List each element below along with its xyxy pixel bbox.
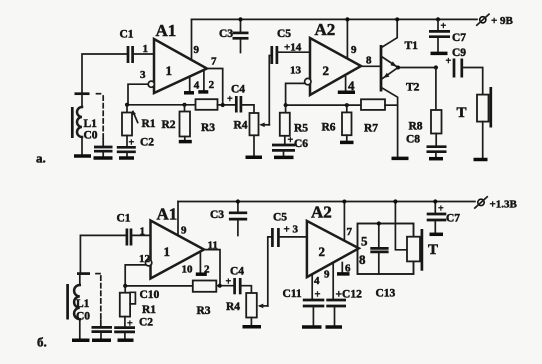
capacitor C2 electrolytic <box>117 136 136 157</box>
svg-text:C13: C13 <box>376 288 396 300</box>
svg-text:R3: R3 <box>197 305 211 317</box>
wire input from tank to C1 <box>82 54 128 94</box>
svg-text:C7: C7 <box>452 32 466 44</box>
capacitor C13 <box>370 224 388 275</box>
svg-text:C3: C3 <box>219 28 233 40</box>
power rail +1.3V <box>178 201 475 203</box>
junction R6 <box>345 103 349 107</box>
junction rail C7 (b) <box>433 199 437 203</box>
svg-text:+1.3В: +1.3В <box>490 199 518 211</box>
ground tank a <box>74 154 91 158</box>
svg-text:C5: C5 <box>277 28 291 40</box>
resistor R7 <box>361 99 398 110</box>
pin 10 stub and ground <box>196 252 207 275</box>
svg-text:C1: C1 <box>120 29 134 41</box>
capacitor C10 bracket <box>130 292 135 304</box>
ground C0 (b) <box>92 338 111 342</box>
ground C11 <box>302 325 322 329</box>
capacitor C8 <box>427 147 447 157</box>
dashed trimmer line C0 (b) <box>96 274 101 327</box>
svg-text:+: + <box>446 56 452 67</box>
svg-text:T: T <box>428 242 438 258</box>
svg-text:6: 6 <box>345 263 351 275</box>
junction rail C3 <box>238 17 242 21</box>
transistor T2 <box>382 68 398 156</box>
resistor R4 potentiometer (b) <box>246 293 257 325</box>
svg-text:9: 9 <box>351 44 357 56</box>
svg-text:T1: T1 <box>405 40 419 52</box>
power terminal +9V <box>477 14 514 27</box>
svg-text:9: 9 <box>194 44 200 56</box>
capacitor C7 electrolytic <box>429 19 450 51</box>
svg-text:T: T <box>457 105 467 121</box>
ground R4 <box>246 155 263 159</box>
svg-text:4: 4 <box>348 78 355 93</box>
junction pin7/R3 <box>221 103 225 107</box>
wire input tank to C1 (b) <box>80 235 127 272</box>
pin 4 riser to C11 <box>311 274 313 298</box>
resistor R1 (b) <box>120 286 130 317</box>
telephone T (b) <box>407 229 422 271</box>
svg-text:R8: R8 <box>409 121 423 133</box>
svg-text:+14: +14 <box>284 42 302 54</box>
svg-text:R5: R5 <box>294 123 308 135</box>
svg-text:C7: C7 <box>446 213 460 225</box>
capacitor C9 <box>446 56 483 95</box>
svg-text:2: 2 <box>323 63 330 78</box>
pin 9 riser A1 (b) <box>177 202 179 236</box>
pin 3 input circle <box>148 81 154 87</box>
resistor R8 <box>431 68 442 146</box>
capacitor C0 (b) <box>92 327 113 338</box>
svg-text:C0: C0 <box>84 130 98 142</box>
ground T <box>474 158 488 162</box>
op-amp A1 (b) <box>151 221 205 279</box>
ground tank b <box>72 338 90 342</box>
capacitor C1 <box>128 46 154 63</box>
svg-text:C9: C9 <box>452 47 466 59</box>
svg-text:C1: C1 <box>117 213 131 225</box>
capacitor C6 electrolytic <box>272 135 295 156</box>
svg-text:+ 3: + 3 <box>284 224 299 236</box>
pin 9 riser A2 <box>346 19 348 58</box>
resistor R4 potentiometer <box>250 113 259 155</box>
capacitor C3 <box>233 19 249 52</box>
wire pin12 to R1 node (b) <box>125 265 145 286</box>
svg-text:L1: L1 <box>84 118 98 130</box>
capacitor C2 electrolytic (b) <box>114 317 135 339</box>
capacitor C5 <box>272 46 310 64</box>
svg-text:2: 2 <box>209 79 215 91</box>
wire wiper to C5 (b) <box>268 237 273 306</box>
capacitor C7 electrolytic (b) <box>427 202 447 233</box>
svg-text:8: 8 <box>359 252 366 267</box>
svg-text:C0: C0 <box>76 311 90 323</box>
ground C7 (b) <box>430 233 444 237</box>
junction R2 top <box>183 103 187 107</box>
svg-text:C8: C8 <box>406 134 420 146</box>
junction R1 top <box>125 103 129 107</box>
svg-text:L1: L1 <box>76 298 90 310</box>
svg-text:C10: C10 <box>140 289 160 301</box>
svg-text:R4: R4 <box>226 301 240 313</box>
svg-text:11: 11 <box>208 240 218 252</box>
svg-text:R2: R2 <box>162 119 176 131</box>
svg-text:9: 9 <box>324 269 330 281</box>
pin 7 output wire <box>207 69 223 106</box>
junction R8/C9 <box>434 65 438 69</box>
svg-text:а.: а. <box>36 151 46 166</box>
svg-text:9: 9 <box>181 225 187 237</box>
svg-text:1: 1 <box>166 63 173 78</box>
svg-text:5: 5 <box>361 234 368 249</box>
tank top bar <box>75 92 90 95</box>
svg-text:R3: R3 <box>201 122 215 134</box>
dashed trimmer line C0 <box>97 94 104 146</box>
inductor L1 (b) <box>68 274 80 339</box>
ground C12 <box>326 325 343 329</box>
svg-text:C2: C2 <box>139 317 153 329</box>
svg-text:+: + <box>129 138 135 149</box>
svg-text:2: 2 <box>319 244 326 259</box>
svg-text:13: 13 <box>290 65 302 77</box>
power terminal +1.3V <box>475 197 518 211</box>
capacitor C12 electrolytic <box>326 300 346 325</box>
wire wiper to C5 <box>269 56 272 125</box>
svg-text:C4: C4 <box>231 84 245 96</box>
svg-text:+: + <box>127 319 133 330</box>
capacitor C11 electrolytic <box>303 290 325 325</box>
svg-text:2: 2 <box>204 264 210 276</box>
svg-text:C3: C3 <box>210 209 224 221</box>
svg-text:+: + <box>226 277 232 288</box>
junction rail pin9 <box>345 17 349 21</box>
junction emitters <box>396 66 400 70</box>
svg-text:R4: R4 <box>234 120 248 132</box>
svg-text:A2: A2 <box>315 20 336 39</box>
svg-text:+: + <box>315 290 321 301</box>
pin 6 stub and ground <box>337 263 350 274</box>
junction pin11/R3 (b) <box>218 284 222 288</box>
wire output node <box>397 67 436 69</box>
resistor R6 <box>342 105 352 141</box>
telephone T <box>477 87 491 158</box>
pin 11 output wire <box>204 250 220 286</box>
svg-text:C11: C11 <box>283 288 302 300</box>
svg-text:7: 7 <box>347 226 353 238</box>
capacitor C0 <box>94 147 113 156</box>
svg-text:A1: A1 <box>156 21 177 40</box>
inductor L1 <box>72 94 82 155</box>
svg-text:+: + <box>227 94 233 105</box>
pin 12 circle <box>145 260 151 266</box>
wire node R1-R2-R3 <box>127 104 196 106</box>
wire node R5-R6-R7 <box>286 104 361 106</box>
pin 13 circle <box>305 78 311 84</box>
svg-text:1: 1 <box>143 43 149 55</box>
ground C8 <box>429 157 443 161</box>
svg-text:R6: R6 <box>322 122 336 134</box>
svg-text:3: 3 <box>140 69 146 81</box>
svg-text:8: 8 <box>366 54 372 66</box>
ground T2 <box>392 157 409 161</box>
op-amp A1 <box>154 39 207 93</box>
junction rail T1 <box>395 17 399 21</box>
resistor R3 <box>196 99 237 110</box>
svg-text:R1: R1 <box>142 118 156 130</box>
ground C6 <box>274 156 294 160</box>
R4 wiper arrow <box>259 123 269 128</box>
junction rail T drive <box>393 199 397 203</box>
wire pin13 to R5 node <box>286 83 305 105</box>
tank top bar (b) <box>77 272 90 275</box>
svg-text:10: 10 <box>182 264 194 276</box>
svg-text:C6: C6 <box>294 138 308 150</box>
svg-text:R7: R7 <box>364 123 378 135</box>
junction R1 (b) <box>123 284 127 288</box>
svg-text:7: 7 <box>211 56 217 68</box>
capacitor C3 (b) <box>229 202 247 236</box>
op-amp A2 (b) <box>307 221 359 277</box>
svg-text:+C12: +C12 <box>336 289 363 301</box>
svg-text:б.: б. <box>37 335 47 350</box>
svg-text:R1: R1 <box>142 304 156 316</box>
svg-text:4: 4 <box>314 275 320 287</box>
svg-text:1: 1 <box>140 226 146 238</box>
resistor R1 <box>122 105 138 136</box>
svg-text:A1: A1 <box>157 205 178 224</box>
capacitor C4 (b) <box>226 277 252 295</box>
junction R5 <box>284 103 288 107</box>
capacitor C5 (b) <box>272 228 307 247</box>
resistor R3 (b) <box>193 281 235 292</box>
wire pin3 to R1 node <box>128 84 148 105</box>
svg-text:A2: A2 <box>311 203 332 222</box>
svg-text:C4: C4 <box>230 266 244 278</box>
capacitor C4 <box>227 94 254 113</box>
svg-text:12: 12 <box>139 253 151 265</box>
op-amp A2 <box>310 38 361 95</box>
pin 2 stub and ground <box>198 70 208 92</box>
pin 9 riser A1 <box>191 19 193 60</box>
ground C2 <box>119 156 134 160</box>
svg-text:1: 1 <box>164 244 171 259</box>
transistor T1 <box>381 19 397 91</box>
junction loop C13 <box>377 221 381 225</box>
resistor R2 <box>180 105 191 140</box>
power rail +9V <box>192 18 478 20</box>
svg-text:C2: C2 <box>140 137 154 149</box>
junction rail C3 (b) <box>236 199 240 203</box>
svg-text:4: 4 <box>194 80 200 92</box>
resistor R5 <box>280 105 290 144</box>
wire rail to T (b) <box>395 202 407 250</box>
svg-text:T2: T2 <box>406 82 420 94</box>
ground C2 (b) <box>118 338 134 342</box>
wire node R1-R3 (b) <box>125 285 193 287</box>
ground R2 <box>179 140 192 144</box>
svg-text:+ 9В: + 9В <box>491 15 514 27</box>
ground C7 <box>431 52 448 56</box>
junction rail pin7 (b) <box>342 200 346 204</box>
pin 4 stub and ground A2 <box>338 77 355 93</box>
pin 9 riser to C12 <box>332 263 334 299</box>
ground C0 <box>94 156 113 160</box>
output loop rectangle pins 5/8 <box>358 224 414 275</box>
wire A2 output to bases <box>361 65 381 67</box>
junction rail C7 <box>436 17 440 21</box>
capacitor C1 (b) <box>127 229 151 246</box>
pin 7 riser (b) <box>343 202 345 241</box>
svg-text:C5: C5 <box>273 212 287 224</box>
ground R4 (b) <box>243 325 262 329</box>
pin 4 stub and ground <box>184 77 194 93</box>
R4 wiper arrow (b) <box>258 304 268 309</box>
ground R6 <box>340 141 354 145</box>
